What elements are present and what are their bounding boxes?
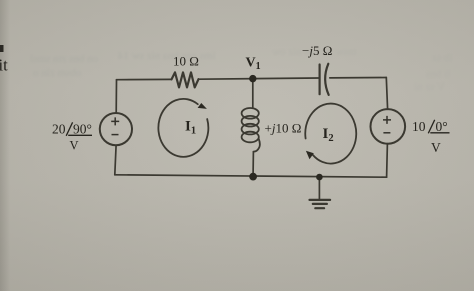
minus sign VS1	[112, 134, 119, 136]
ground stem	[318, 180, 320, 199]
angle underline left	[68, 134, 92, 136]
plus sign VS1	[111, 116, 391, 135]
bleed-through text line D	[272, 46, 356, 58]
minus sign VS2	[383, 132, 390, 134]
svg-text:V: V	[70, 139, 79, 153]
node V1 junction dot	[249, 75, 256, 82]
mesh current I2 arrowhead	[306, 151, 314, 159]
page mark left edge	[0, 45, 4, 52]
ground bar 2	[313, 203, 327, 205]
voltage source VS2 circle (10/0 V)	[371, 109, 406, 144]
bleed-through text line C	[118, 50, 215, 62]
angle slash left	[66, 122, 72, 136]
bleed-through text line G	[414, 81, 445, 93]
svg-text:V: V	[431, 140, 441, 155]
wire left vertical lower	[115, 145, 116, 175]
svg-text:it: it	[0, 56, 8, 75]
svg-text:I2: I2	[323, 126, 334, 144]
capacitor C1 right curved plate	[325, 64, 329, 95]
svg-text:10 Ω: 10 Ω	[173, 54, 199, 69]
capacitor C1 left plate	[319, 65, 321, 95]
wire inductor bottom stub	[252, 152, 254, 174]
junction dot inductor bottom	[249, 173, 257, 181]
svg-text:90°: 90°	[73, 122, 92, 137]
svg-text:10: 10	[412, 119, 426, 134]
angle underline right	[430, 132, 449, 134]
bleed-through text line A	[30, 53, 98, 65]
svg-text:+j10 Ω: +j10 Ω	[265, 121, 302, 136]
wire top (left corner to resistor)	[117, 78, 172, 80]
voltage source VS1 circle (20/90 V)	[100, 113, 132, 145]
svg-text:−j5 Ω: −j5 Ω	[302, 43, 332, 58]
mesh current I1 arrowhead	[198, 103, 207, 109]
wire top (capacitor to right corner)	[330, 77, 387, 79]
angle slash right	[428, 120, 434, 134]
bleed-through text line E	[432, 52, 452, 64]
bleed-through text line B	[33, 67, 81, 79]
ground bar 3	[315, 207, 324, 209]
svg-text:I1: I1	[185, 119, 196, 137]
mesh current I2 arc	[305, 104, 356, 164]
inductor L1 coil loops	[242, 108, 260, 152]
wire top (resistor to capacitor)	[199, 78, 319, 79]
junction dot ground node	[316, 174, 323, 181]
wire right vertical lower	[386, 144, 389, 178]
wire right vertical upper	[386, 78, 387, 110]
plus sign VS2	[383, 116, 391, 124]
wire inductor top stub	[252, 82, 254, 108]
ground bar 1	[310, 199, 331, 201]
svg-text:V1: V1	[246, 56, 261, 73]
svg-text:0°: 0°	[436, 119, 448, 134]
svg-text:20: 20	[52, 122, 66, 137]
resistor R1 10ohm zigzag	[172, 72, 199, 87]
wire left vertical upper	[115, 80, 117, 114]
wire bottom	[115, 175, 387, 177]
bleed-through text line F	[426, 68, 450, 80]
mesh current I1 arc	[158, 99, 208, 157]
